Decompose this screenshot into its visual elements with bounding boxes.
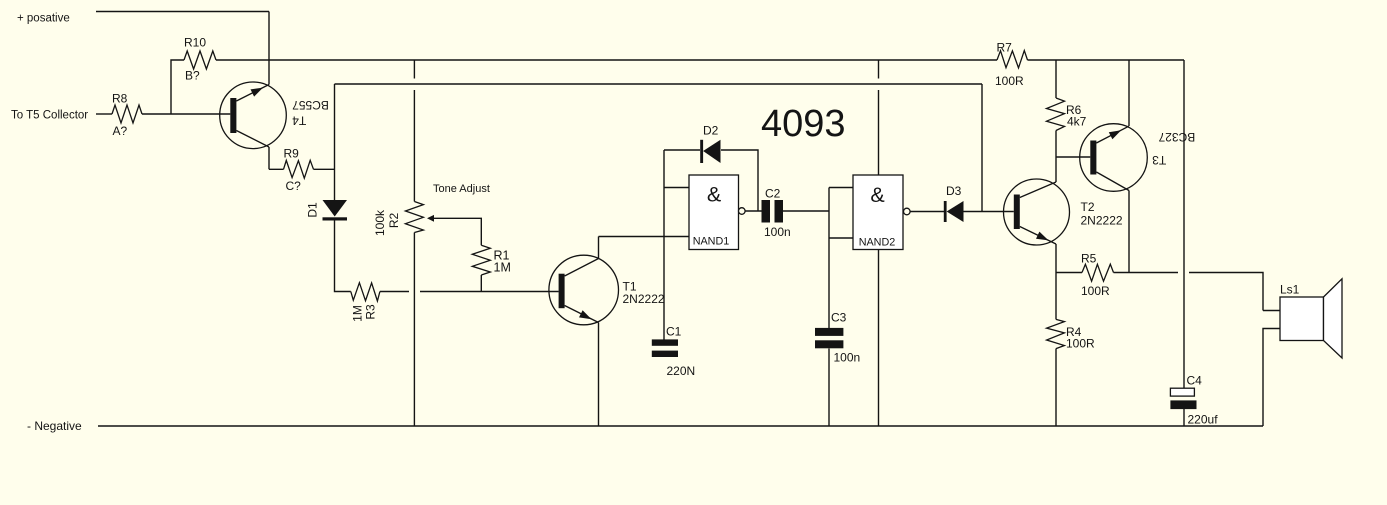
wire feedback horizontal bbox=[335, 83, 983, 85]
diode D3 bbox=[944, 184, 964, 222]
op-amp NAND2 gate bbox=[853, 175, 910, 250]
wire C2 to NAND2 inputs bbox=[783, 210, 829, 212]
wire T1 emitter drop to ground bbox=[598, 323, 600, 427]
wire T3 emitter riser bbox=[1128, 60, 1130, 126]
wire T2 emitter node down to R4 bbox=[1055, 244, 1057, 319]
wire T1 collector to NAND1 input bbox=[599, 236, 690, 238]
svg-text:- Negative: - Negative bbox=[27, 419, 82, 433]
node +V rail bbox=[96, 11, 269, 13]
transistor T1 2N2222 bbox=[549, 255, 665, 325]
svg-text:100R: 100R bbox=[1081, 284, 1110, 298]
svg-text:&: & bbox=[707, 182, 721, 206]
svg-text:C1: C1 bbox=[666, 325, 682, 339]
svg-text:100n: 100n bbox=[764, 225, 791, 239]
svg-text:NAND1: NAND1 bbox=[693, 236, 730, 248]
svg-text:R8: R8 bbox=[112, 92, 128, 106]
svg-text:D3: D3 bbox=[946, 184, 962, 198]
svg-text:A?: A? bbox=[113, 124, 128, 138]
diode D2 bbox=[700, 124, 720, 164]
svg-text:100k: 100k bbox=[373, 209, 387, 236]
wire D2 anode lead bbox=[664, 149, 700, 151]
wire NAND1 top input stub bbox=[664, 187, 689, 189]
wire R10 left lead and drop to base wire bbox=[171, 60, 184, 114]
svg-text:BC327: BC327 bbox=[1158, 130, 1195, 144]
svg-text:R5: R5 bbox=[1081, 252, 1097, 266]
wire pot wiper to R1 bbox=[433, 218, 481, 245]
svg-text:BC557: BC557 bbox=[292, 98, 329, 112]
wire C3 bottom lead to ground bbox=[828, 349, 830, 427]
svg-text:R10: R10 bbox=[184, 36, 206, 50]
svg-text:C3: C3 bbox=[831, 311, 847, 325]
svg-text:&: & bbox=[870, 183, 884, 207]
wire R6 top lead from rail bbox=[1055, 60, 1057, 98]
wire T3 collector drop to R5 bbox=[1128, 191, 1130, 273]
svg-text:R3: R3 bbox=[364, 304, 378, 320]
wire R5 right to speaker with crossover break bbox=[1114, 273, 1264, 311]
wire T1 collector riser bbox=[598, 237, 600, 259]
transistor T3 BC327 bbox=[1080, 124, 1196, 192]
wire R6 bottom to T3 base and T2 collector bbox=[1055, 131, 1057, 183]
resistor R8 bbox=[112, 92, 142, 139]
wire NAND1 input vertical D2 to C1 bbox=[663, 150, 665, 340]
svg-text:2N2222: 2N2222 bbox=[623, 292, 665, 306]
svg-text:NAND2: NAND2 bbox=[859, 237, 896, 249]
svg-text:R2: R2 bbox=[387, 213, 401, 229]
resistor R3 bbox=[351, 283, 380, 322]
capacitor C2 bbox=[762, 187, 791, 240]
svg-text:C4: C4 bbox=[1187, 374, 1203, 388]
svg-text:Tone Adjust: Tone Adjust bbox=[433, 183, 490, 195]
resistor R9 bbox=[284, 147, 314, 194]
wire NAND2 ground pin bbox=[878, 250, 880, 427]
transistor T4 BC557 bbox=[220, 82, 329, 149]
wire R4 bottom lead to ground bbox=[1055, 349, 1057, 426]
capacitor C3 bbox=[815, 311, 860, 365]
resistor R6 bbox=[1047, 98, 1087, 131]
wire R2 bottom lead to ground bbox=[413, 233, 415, 427]
wire R7 to right corner bbox=[1028, 59, 1185, 61]
wire R8 left lead bbox=[96, 113, 112, 115]
wire NAND2 input tie vertical down to C3 bbox=[828, 188, 830, 329]
capacitor C4 electrolytic bbox=[1170, 374, 1218, 427]
svg-text:To T5 Collector: To T5 Collector bbox=[11, 110, 88, 122]
wire C4 riser bbox=[1183, 60, 1185, 388]
wire R1 bottom lead bbox=[480, 275, 482, 292]
resistor R4 bbox=[1047, 319, 1095, 350]
svg-text:R9: R9 bbox=[284, 147, 300, 161]
svg-text:220N: 220N bbox=[667, 364, 696, 378]
resistor R1 bbox=[472, 245, 511, 275]
wire NAND2 input stubs bbox=[829, 188, 853, 239]
svg-text:2N2222: 2N2222 bbox=[1081, 214, 1123, 228]
wire D1 cathode to R3 node bbox=[335, 221, 351, 292]
wire base net to T1 bbox=[420, 291, 559, 293]
svg-text:220uf: 220uf bbox=[1188, 413, 1219, 427]
wire D2 cathode to NAND1 output node bbox=[721, 150, 758, 211]
resistor R7 bbox=[995, 41, 1028, 89]
svg-text:100R: 100R bbox=[1066, 337, 1095, 351]
svg-text:100n: 100n bbox=[834, 351, 861, 365]
wire speaker bottom terminal to ground bbox=[1263, 329, 1280, 427]
svg-text:100R: 100R bbox=[995, 74, 1024, 88]
wire NAND2 Vdd pin with crossover break bbox=[878, 60, 880, 175]
wire NAND2 output lead bbox=[910, 211, 944, 213]
wire main top horizontal from R10 to R7 bbox=[216, 59, 997, 61]
wire T4 collector drop bbox=[268, 147, 270, 169]
wire NAND1 output lead bbox=[745, 210, 761, 212]
svg-text:T3: T3 bbox=[1152, 153, 1166, 167]
wire R9 leads bbox=[269, 168, 335, 170]
wire feedback right drop to T2 base net bbox=[981, 84, 983, 212]
wire feedback left drop to D1 bbox=[334, 84, 336, 200]
svg-text:4k7: 4k7 bbox=[1067, 115, 1087, 129]
diode D1 bbox=[306, 200, 348, 221]
potentiometer R2 Tone Adjust bbox=[373, 183, 490, 236]
resistor R5 bbox=[1081, 252, 1114, 299]
svg-text:+ posative: + posative bbox=[17, 13, 70, 25]
svg-text:T2: T2 bbox=[1081, 200, 1095, 214]
wire D3 to T2 base bbox=[964, 211, 1014, 213]
svg-text:C2: C2 bbox=[765, 187, 781, 201]
wire R2 top lead with crossover break bbox=[413, 60, 415, 202]
wire T4 emitter riser bbox=[268, 12, 270, 85]
wire R8 to T4 base bbox=[142, 113, 230, 115]
wire C4 bottom lead bbox=[1183, 409, 1185, 426]
svg-text:T4: T4 bbox=[292, 113, 306, 127]
node ground rail bbox=[98, 425, 1263, 427]
op-amp NAND1 gate bbox=[689, 175, 745, 250]
svg-text:1M: 1M bbox=[494, 261, 511, 275]
svg-text:D1: D1 bbox=[306, 202, 320, 218]
svg-text:C?: C? bbox=[286, 179, 302, 193]
svg-text:B?: B? bbox=[185, 69, 200, 83]
wire R3 right lead bbox=[380, 291, 409, 293]
svg-text:Ls1: Ls1 bbox=[1280, 283, 1300, 297]
wire R5 left lead bbox=[1056, 272, 1082, 274]
resistor R10 bbox=[184, 36, 216, 83]
wire T3 base bbox=[1056, 156, 1090, 158]
transistor T2 2N2222 bbox=[1004, 179, 1123, 245]
svg-text:R7: R7 bbox=[997, 41, 1013, 55]
svg-text:D2: D2 bbox=[703, 124, 719, 138]
svg-text:4093: 4093 bbox=[761, 103, 846, 145]
wire speaker top terminal bbox=[1263, 310, 1280, 312]
speaker Ls1 bbox=[1280, 279, 1342, 358]
capacitor C1 bbox=[652, 325, 695, 379]
svg-text:1M: 1M bbox=[351, 305, 365, 322]
